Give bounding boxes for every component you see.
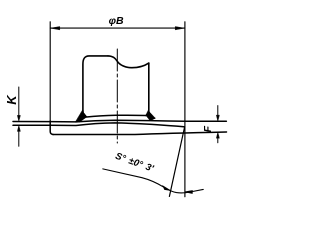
extension line left / flange rim edge — [49, 22, 51, 122]
dimension K lower line and arrowhead — [18, 132, 20, 147]
flange lower rim line (K lower extension) — [13, 123, 184, 127]
hub top break S-curve — [108, 56, 149, 68]
weld wedge right — [146, 111, 155, 121]
flange top surface line (K upper to F upper extension) — [13, 120, 226, 122]
hub left base inner fillet — [83, 111, 87, 118]
hub right base outer flare — [149, 111, 155, 118]
svg-text:φB: φB — [109, 15, 124, 27]
arrowhead angle at vertical line — [185, 191, 193, 194]
arrowhead angle at slant line — [163, 186, 170, 191]
hub left wall with rounded top corner — [83, 56, 108, 112]
extension line right (angle reference) — [184, 22, 186, 197]
svg-text:K: K — [4, 94, 19, 105]
dimension F upper line and arrowhead — [217, 106, 219, 115]
centerline axis (dash-dot) — [116, 49, 118, 143]
dimension F lower line and arrowhead — [217, 138, 219, 142]
angle dimension leader and arc — [103, 169, 203, 193]
dimension line phiB — [50, 27, 184, 29]
cone face slant line — [169, 127, 184, 197]
hub right wall — [148, 63, 150, 112]
hub left base outer flare — [76, 111, 83, 122]
flange bottom surface line (extends as F lower extension) — [53, 132, 227, 135]
svg-text:F: F — [202, 125, 214, 132]
hub right base inner fillet — [146, 111, 149, 116]
weld wedge left — [76, 111, 87, 123]
arrowhead phiB left — [50, 27, 59, 30]
dimension K upper line and arrowhead — [18, 87, 20, 115]
seat plateau line under hub — [87, 115, 147, 117]
arrowhead phiB right — [175, 27, 184, 30]
